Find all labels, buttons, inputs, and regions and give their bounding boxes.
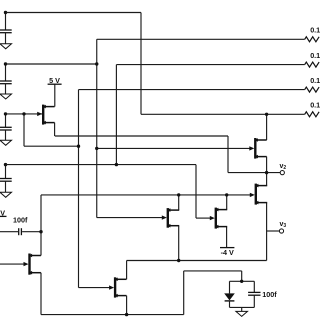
svg-text:100f: 100f — [262, 290, 277, 299]
svg-text:0.1: 0.1 — [310, 101, 320, 110]
svg-text:v2: v2 — [280, 163, 287, 171]
svg-text:0.1: 0.1 — [310, 76, 320, 85]
svg-text:0.1: 0.1 — [310, 51, 320, 60]
svg-text:v3: v3 — [280, 221, 287, 229]
svg-text:5 V: 5 V — [49, 76, 60, 85]
svg-text:100f: 100f — [13, 215, 28, 224]
svg-text:0.1: 0.1 — [310, 26, 320, 35]
svg-text:-4 V: -4 V — [221, 248, 234, 257]
